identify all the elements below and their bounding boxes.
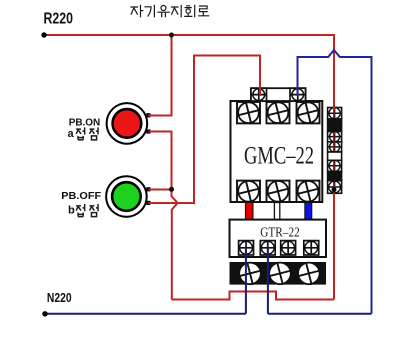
node R220: [41, 32, 46, 37]
relay GTR-22 terminals (4 screw terminals): [239, 241, 319, 255]
title label 자기유지회로: [131, 5, 209, 16]
pushbutton PB.OFF (b contact, green): [106, 176, 150, 217]
svg-text:R220: R220: [44, 11, 74, 28]
wire junction down with hop over PB.OFF bottom wire: [172, 190, 178, 300]
node junction PB.OFF top: [169, 187, 174, 192]
node auxiliary contact tap: [332, 187, 337, 192]
contactor GMC-22 main terminals T1 T2 T3 (bottom row): [237, 180, 320, 203]
wire bottom red run with jog over blue drops: [172, 292, 335, 300]
wire navy bottom right run to GTR terminal 2: [268, 248, 372, 314]
wire PB.ON bottom contact to junction: [148, 132, 171, 190]
node N220: [42, 311, 47, 316]
wire PB.OFF bottom contact to coil terminal A1: [148, 56, 260, 204]
contactor GMC-22 body: [231, 101, 323, 202]
svg-text:b: b: [68, 205, 75, 217]
svg-text:GTR–22: GTR–22: [260, 225, 299, 240]
wire right red drop through aux contacts: [333, 35, 335, 110]
svg-text:PB.OFF: PB.OFF: [61, 190, 101, 202]
wire stub blue GMC to GTR: [305, 203, 312, 221]
wire R220 rail to PB.ON top contact: [148, 35, 171, 116]
relay GTR-22 body: [230, 220, 327, 257]
wire PB.OFF top contact to junction: [148, 189, 171, 191]
contactor GMC-22 side auxiliary contact strip: [328, 108, 342, 194]
contactor GMC-22 top auxiliary block: [251, 88, 306, 101]
wire coil terminal A2 blue with hop over red drop: [298, 50, 372, 314]
wire N220 rail to GTR terminal 1: [45, 248, 246, 314]
pushbutton PB.ON (a contact, red): [107, 103, 151, 144]
svg-text:N220: N220: [47, 290, 72, 305]
relay GTR-22 lower black contact band: [230, 262, 327, 285]
svg-text:GMC–22: GMC–22: [244, 142, 314, 169]
wire stub white GMC to GTR: [274, 203, 279, 221]
wire R220 top rail: [44, 34, 335, 36]
node junction on top rail: [169, 33, 174, 38]
wire stub red GMC to GTR: [245, 203, 253, 221]
contactor GMC-22 main terminals L1 L2 L3 (top row): [237, 101, 320, 124]
svg-text:a: a: [68, 128, 75, 140]
